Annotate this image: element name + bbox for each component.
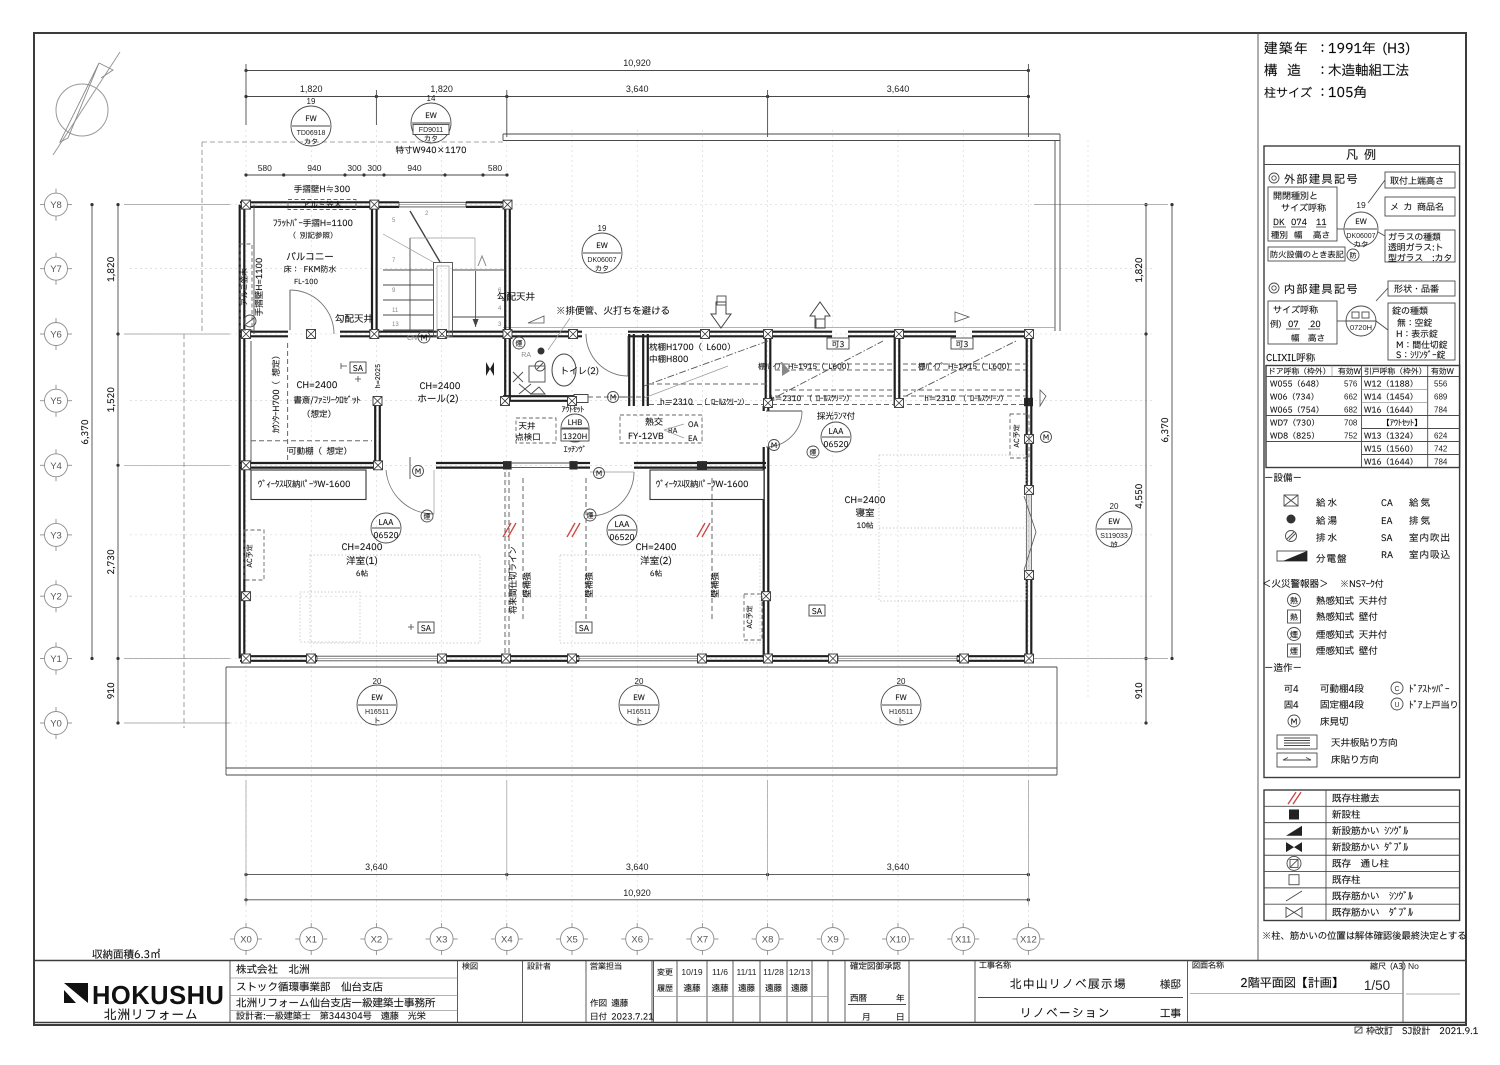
svg-text:11: 11 <box>392 308 399 314</box>
svg-text:Y5: Y5 <box>50 396 62 407</box>
svg-text:682: 682 <box>1344 406 1358 415</box>
svg-text:3,640: 3,640 <box>626 84 649 94</box>
svg-text:13: 13 <box>392 322 399 328</box>
svg-text:CN: CN <box>407 335 417 342</box>
svg-text:3,640: 3,640 <box>365 862 388 872</box>
svg-text:No: No <box>1408 961 1419 971</box>
svg-text:X8: X8 <box>762 935 774 946</box>
svg-text:556: 556 <box>1434 380 1448 389</box>
svg-text:DK06007: DK06007 <box>587 257 616 264</box>
svg-text:10,920: 10,920 <box>623 58 651 68</box>
svg-text:14: 14 <box>427 94 436 103</box>
svg-text:Y6: Y6 <box>50 330 62 341</box>
svg-text:FD9011: FD9011 <box>419 127 443 134</box>
svg-text:19: 19 <box>598 224 607 233</box>
svg-text:784: 784 <box>1434 406 1448 415</box>
svg-text:580: 580 <box>258 163 272 173</box>
svg-text:662: 662 <box>1344 393 1358 402</box>
svg-text:3,640: 3,640 <box>626 862 649 872</box>
svg-text:11/6: 11/6 <box>712 967 728 977</box>
svg-text:HOKUSHU: HOKUSHU <box>92 982 224 1010</box>
svg-text:X3: X3 <box>436 935 448 946</box>
svg-text:11/28: 11/28 <box>763 967 784 977</box>
svg-text:C: C <box>1394 686 1399 693</box>
svg-text:X4: X4 <box>501 935 513 946</box>
svg-text:X5: X5 <box>566 935 578 946</box>
svg-text:12/13: 12/13 <box>789 967 811 977</box>
svg-text:1,820: 1,820 <box>430 84 453 94</box>
svg-text:784: 784 <box>1434 458 1448 467</box>
svg-text:S119033: S119033 <box>1100 533 1128 540</box>
svg-text:3,640: 3,640 <box>887 862 910 872</box>
svg-text:940: 940 <box>407 163 421 173</box>
svg-text:624: 624 <box>1434 432 1448 441</box>
svg-text:U: U <box>1394 702 1399 709</box>
svg-text:20: 20 <box>1110 502 1119 511</box>
svg-text:11/11: 11/11 <box>736 967 756 977</box>
svg-text:X2: X2 <box>371 935 383 946</box>
svg-text:689: 689 <box>1434 393 1448 402</box>
svg-text:576: 576 <box>1344 380 1358 389</box>
svg-text:1,820: 1,820 <box>300 84 323 94</box>
svg-text:Y4: Y4 <box>50 461 62 472</box>
svg-text:H16511: H16511 <box>627 709 651 716</box>
svg-text:H16511: H16511 <box>889 709 913 716</box>
svg-text:708: 708 <box>1344 419 1358 428</box>
svg-text:H16511: H16511 <box>365 709 389 716</box>
svg-text:Y2: Y2 <box>50 592 62 603</box>
svg-text:X1: X1 <box>305 935 317 946</box>
svg-text:Y7: Y7 <box>50 264 62 275</box>
svg-text:Y1: Y1 <box>50 654 62 665</box>
svg-text:742: 742 <box>1434 445 1448 454</box>
svg-text:19: 19 <box>1356 200 1366 210</box>
svg-text:X10: X10 <box>890 935 907 946</box>
svg-text:752: 752 <box>1344 432 1358 441</box>
svg-text:10/19: 10/19 <box>681 967 703 977</box>
svg-text:19: 19 <box>307 97 316 106</box>
svg-text:580: 580 <box>488 163 502 173</box>
svg-text:0720H: 0720H <box>1350 323 1372 332</box>
svg-text:TD06918: TD06918 <box>297 130 326 137</box>
svg-text:Y3: Y3 <box>50 530 62 541</box>
svg-text:300: 300 <box>367 163 381 173</box>
svg-text:X9: X9 <box>827 935 839 946</box>
svg-text:Y0: Y0 <box>50 719 62 730</box>
svg-text:Y8: Y8 <box>50 200 62 211</box>
svg-text:10,920: 10,920 <box>623 888 651 898</box>
svg-text:300: 300 <box>347 163 361 173</box>
svg-text:X11: X11 <box>955 935 971 946</box>
svg-text:X7: X7 <box>697 935 709 946</box>
svg-text:940: 940 <box>307 163 321 173</box>
svg-text:1/50: 1/50 <box>1364 978 1390 993</box>
svg-text:3,640: 3,640 <box>887 84 910 94</box>
svg-text:X6: X6 <box>631 935 643 946</box>
svg-text:DK06007: DK06007 <box>1346 233 1375 240</box>
svg-text:X12: X12 <box>1020 935 1037 946</box>
svg-text:X0: X0 <box>240 935 252 946</box>
svg-text:RA: RA <box>521 352 531 359</box>
